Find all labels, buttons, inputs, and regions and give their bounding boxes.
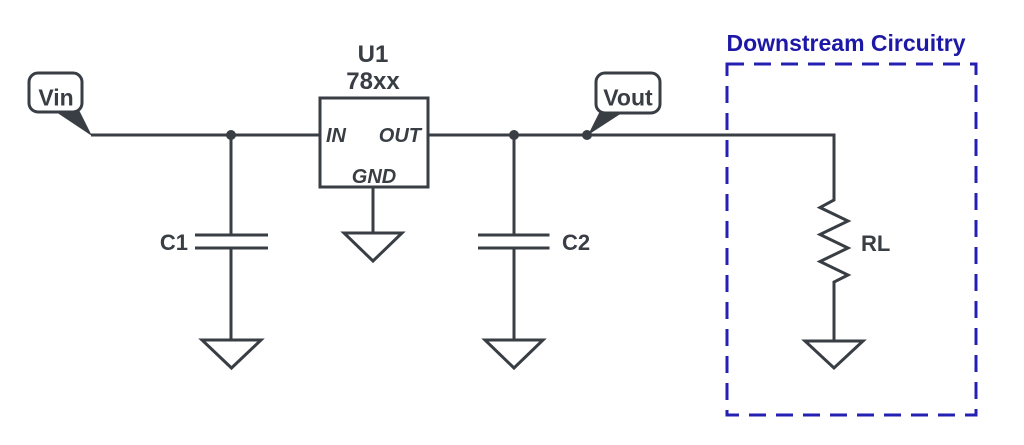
svg-text:C2: C2	[562, 230, 590, 255]
svg-text:Downstream Circuitry: Downstream Circuitry	[726, 30, 965, 56]
svg-text:Vin: Vin	[38, 85, 73, 111]
svg-text:RL: RL	[861, 231, 890, 256]
svg-text:C1: C1	[160, 230, 188, 255]
svg-text:OUT: OUT	[379, 125, 423, 147]
svg-text:GND: GND	[352, 166, 396, 188]
svg-text:78xx: 78xx	[346, 68, 400, 95]
svg-text:IN: IN	[326, 125, 347, 147]
svg-text:Vout: Vout	[603, 85, 653, 111]
svg-text:U1: U1	[358, 41, 389, 68]
